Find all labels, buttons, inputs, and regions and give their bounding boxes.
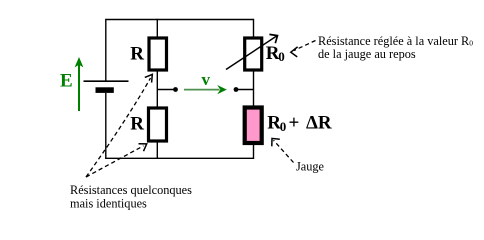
svg-text:Jauge: Jauge bbox=[296, 160, 325, 174]
resistor R bottom-left bbox=[149, 108, 167, 141]
svg-text:v: v bbox=[202, 70, 211, 89]
resistor R0 adjustable (top-right) bbox=[245, 38, 262, 70]
dashed leader arrow from Jauge to gauge resistor bbox=[272, 138, 294, 162]
annotation text: resistances quelconques mais identiques bbox=[70, 183, 192, 211]
wire bridge-right branch segments bbox=[253, 19, 255, 159]
wire stub to left node bbox=[157, 89, 174, 91]
node dot right bbox=[234, 87, 239, 92]
source voltage arrow E (green) bbox=[75, 57, 84, 111]
svg-text:Résistances quelconques: Résistances quelconques bbox=[70, 183, 192, 197]
dashed leader arrow to top resistor (curved) bbox=[86, 74, 152, 177]
wire stub from right node bbox=[237, 89, 254, 91]
dashed leader arrow to bottom resistor bbox=[86, 144, 147, 177]
svg-text:E: E bbox=[60, 70, 73, 91]
svg-text:R: R bbox=[130, 44, 144, 65]
svg-text:de la jauge au repos: de la jauge au repos bbox=[318, 47, 416, 61]
wire bridge-left branch segments bbox=[156, 19, 158, 159]
dashed leader arrow to R0 bbox=[291, 41, 316, 57]
wire top horizontal bbox=[106, 19, 254, 21]
svg-text:+: + bbox=[289, 113, 300, 134]
wire left vertical lower (battery to bottom) bbox=[105, 93, 107, 159]
resistor R top-left bbox=[149, 38, 167, 70]
label R0 + dR (gauge resistor) bbox=[267, 113, 332, 134]
svg-text:ΔR: ΔR bbox=[306, 113, 332, 134]
svg-text:R: R bbox=[130, 113, 144, 134]
strain gauge resistor R0+dR (pink) bbox=[245, 108, 262, 144]
annotation text: resistance adjusted to R0 bbox=[318, 34, 473, 61]
wire left vertical upper (to battery) bbox=[105, 19, 107, 81]
battery source plates bbox=[84, 81, 129, 93]
wire bottom horizontal bbox=[105, 157, 253, 159]
label R0 (adjustable resistor) bbox=[266, 43, 285, 64]
svg-text:0: 0 bbox=[280, 119, 287, 134]
adjustment diagonal arrow over R0 bbox=[226, 34, 278, 69]
svg-text:mais identiques: mais identiques bbox=[70, 196, 147, 210]
node dot left bbox=[173, 87, 178, 92]
bridge voltage arrow v (green) bbox=[184, 85, 227, 94]
svg-text:0: 0 bbox=[278, 49, 285, 64]
svg-text:Résistance réglée à la valeur: Résistance réglée à la valeur R0 bbox=[318, 34, 473, 48]
